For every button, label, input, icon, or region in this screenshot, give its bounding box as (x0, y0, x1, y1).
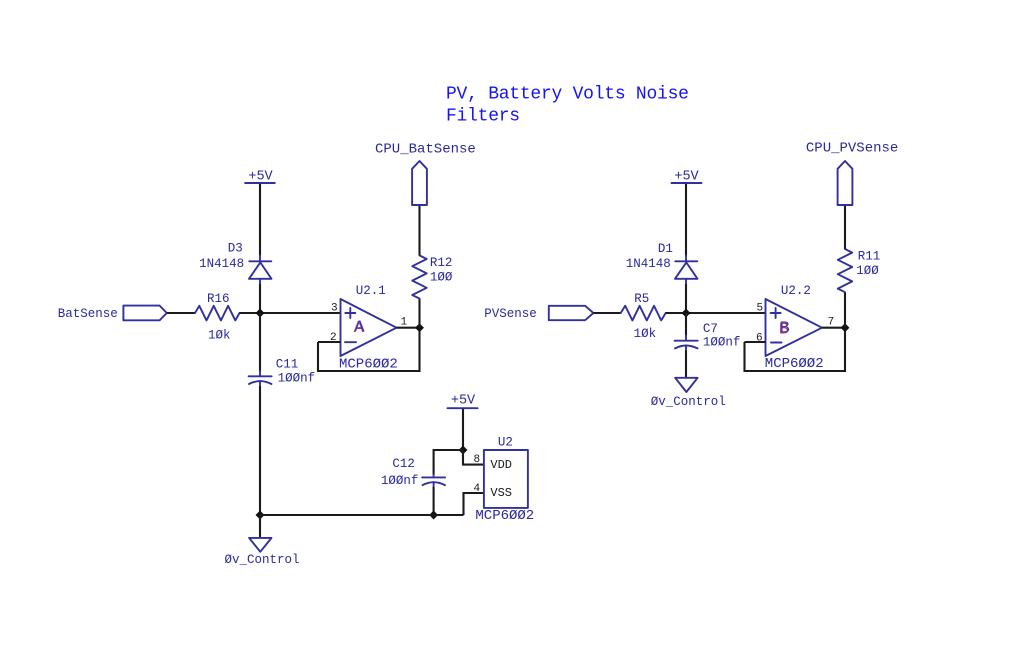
svg-text:5: 5 (757, 303, 764, 315)
port CPU_BatSense (412, 161, 427, 205)
op-amp U2.2 (766, 299, 823, 356)
svg-text:1N4148: 1N4148 (626, 257, 671, 271)
svg-text:U2.1: U2.1 (356, 284, 386, 298)
svg-text:CPU_BatSense: CPU_BatSense (375, 141, 476, 157)
wire C12 to bottom rail (433, 487, 435, 515)
wire junction to R11 (844, 292, 846, 328)
wire to ground (259, 515, 261, 538)
svg-text:1ØØ: 1ØØ (856, 264, 879, 278)
ground 0v_Control (right) (675, 378, 697, 392)
ic U2 power box (484, 450, 528, 508)
svg-text:C11: C11 (276, 358, 299, 372)
svg-text:1Øk: 1Øk (208, 329, 231, 343)
svg-text:1ØØ: 1ØØ (430, 271, 453, 285)
svg-text:4: 4 (474, 483, 481, 495)
wire output pin 7 (822, 327, 845, 329)
wire node to op-amp pin 3 (260, 312, 341, 314)
wire pin 2 stub (318, 341, 341, 343)
resistor R16 (195, 306, 240, 321)
wire junction to pin 8 (463, 450, 484, 465)
capacitor C12 (422, 475, 445, 488)
wire feedback U2.1 (318, 328, 420, 371)
junction node right (683, 310, 690, 317)
svg-text:B: B (780, 320, 790, 339)
op-amp section letter B (779, 320, 790, 340)
diode D3 1N4148 (249, 256, 272, 285)
svg-text:+5V: +5V (451, 394, 476, 409)
ground 0v_Control (left) (249, 538, 271, 552)
title text (446, 85, 689, 127)
wire junction to R12 (418, 299, 420, 328)
junction C12 rail (430, 512, 437, 519)
svg-text:1ØØnf: 1ØØnf (278, 372, 316, 386)
wire D1 anode to node PVSense_f (685, 284, 687, 313)
port BatSense (123, 306, 166, 321)
op-amp U2.1 (341, 299, 397, 356)
wire rail to pin 4 (464, 493, 484, 515)
wire C7 to ground (685, 350, 687, 377)
svg-text:U2: U2 (498, 436, 513, 450)
svg-text:8: 8 (474, 454, 481, 466)
junction output B (842, 324, 849, 331)
svg-text:CPU_PVSense: CPU_PVSense (806, 141, 898, 157)
svg-text:1ØØnf: 1ØØnf (703, 336, 741, 350)
junction VDD node (460, 447, 467, 454)
power +5V (bottom) (448, 394, 478, 409)
junction bottom left (257, 512, 264, 519)
resistor R11 (838, 249, 852, 292)
svg-text:1ØØnf: 1ØØnf (381, 474, 419, 488)
svg-text:1N4148: 1N4148 (199, 257, 244, 271)
wire +5V to D1 cathode (685, 184, 687, 256)
svg-text:PV, Battery Volts Noise: PV, Battery Volts Noise (446, 85, 689, 105)
svg-text:PVSense: PVSense (484, 307, 537, 321)
wire port to R16 (167, 312, 195, 314)
wire port to R5 (593, 312, 620, 314)
junction output A (416, 324, 423, 331)
port CPU_PVSense (838, 161, 853, 205)
wire junction to C12 (434, 450, 463, 475)
diode D1 1N4148 (675, 256, 698, 285)
wire R11 to port (844, 205, 846, 249)
svg-text:R16: R16 (207, 292, 230, 306)
wire C11 to bottom rail (259, 386, 261, 515)
power +5V (left) (245, 169, 275, 184)
capacitor C11 (249, 371, 272, 386)
wire feedback U2.2 (745, 328, 846, 371)
svg-text:BatSense: BatSense (58, 307, 118, 321)
capacitor C7 (675, 336, 698, 351)
svg-text:D3: D3 (228, 242, 243, 256)
svg-text:VDD: VDD (490, 458, 512, 472)
svg-text:R11: R11 (858, 250, 881, 264)
svg-text:C7: C7 (703, 322, 718, 336)
wire +5V to VDD junction (462, 409, 464, 450)
svg-text:VSS: VSS (490, 486, 512, 500)
wire node to C11 (259, 313, 261, 372)
svg-text:3: 3 (331, 303, 338, 315)
wire bottom rail (260, 514, 464, 516)
wire output pin 1 (397, 327, 420, 329)
svg-text:Øv_Control: Øv_Control (651, 395, 726, 409)
wire D3 anode to node BatSense_f (259, 284, 261, 313)
resistor R5 (621, 306, 666, 321)
svg-text:R12: R12 (430, 256, 453, 270)
wire R16 to node (240, 312, 261, 314)
svg-text:MCP6ØØ2: MCP6ØØ2 (765, 356, 824, 372)
junction node left (257, 310, 264, 317)
wire R12 to port (418, 205, 420, 255)
port PVSense (549, 306, 594, 320)
svg-text:R5: R5 (634, 292, 649, 306)
svg-text:Filters: Filters (446, 107, 520, 127)
power +5V (right) (672, 169, 702, 184)
svg-text:Øv_Control: Øv_Control (225, 553, 300, 567)
resistor R12 (412, 255, 426, 298)
svg-text:C12: C12 (392, 457, 415, 471)
svg-text:MCP6ØØ2: MCP6ØØ2 (475, 508, 534, 524)
op-amp section letter A (354, 318, 366, 338)
svg-text:A: A (354, 318, 365, 337)
wire pin 6 stub (745, 341, 766, 343)
svg-text:U2.2: U2.2 (781, 284, 811, 298)
wire R5 to node (666, 312, 686, 314)
wire +5V to D3 cathode (259, 184, 261, 256)
wire node to op-amp pin 5 (686, 312, 766, 314)
svg-text:D1: D1 (658, 242, 673, 256)
svg-text:1Øk: 1Øk (634, 327, 657, 341)
wire node to C7 (685, 313, 687, 336)
